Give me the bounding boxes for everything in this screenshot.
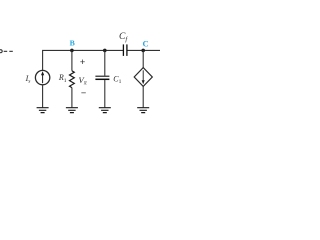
current source Is circle [35, 70, 49, 84]
wire: node B down to resistor R1 [71, 50, 73, 70]
ground (below dependent source) [137, 108, 149, 113]
capacitor Cf right plate [126, 44, 128, 56]
wire: resistor R1 bottom to ground [71, 88, 73, 108]
wire: capacitor C1 bottom plate to ground [104, 80, 106, 107]
wire: Is bottom to ground [42, 85, 44, 108]
ground (below C1) [99, 108, 111, 113]
svg-text:C: C [143, 39, 149, 49]
resistor R1 zigzag [70, 71, 75, 88]
svg-text:+: + [80, 57, 85, 67]
svg-text:−: − [81, 88, 86, 98]
capacitor Cf left plate [122, 44, 124, 56]
current source Is arrow (up) [42, 75, 44, 83]
node B junction dot [70, 49, 74, 53]
svg-text:B: B [70, 39, 75, 48]
junction dot at C1 branch [103, 49, 107, 53]
wire: dependent source bottom to ground [142, 86, 144, 107]
wire: top rail left segment (corner above Is to left plate of Cf) [43, 50, 124, 70]
node C junction dot [141, 49, 145, 53]
dependent current source diamond [134, 68, 152, 87]
ground (below R1) [66, 108, 78, 113]
wire: node C down to dependent source [142, 50, 144, 67]
capacitor C1 bottom plate [95, 78, 109, 80]
dependent source arrow (down) [142, 70, 144, 81]
dashed lead from input terminal [4, 50, 13, 52]
wire: junction down to capacitor C1 top plate [104, 50, 106, 75]
capacitor C1 top plate [95, 75, 109, 77]
wire: top rail right segment (right plate of Cf to right edge) [127, 49, 160, 51]
input terminal (clipped at left edge) [0, 50, 2, 53]
ground (below Is) [37, 108, 49, 113]
